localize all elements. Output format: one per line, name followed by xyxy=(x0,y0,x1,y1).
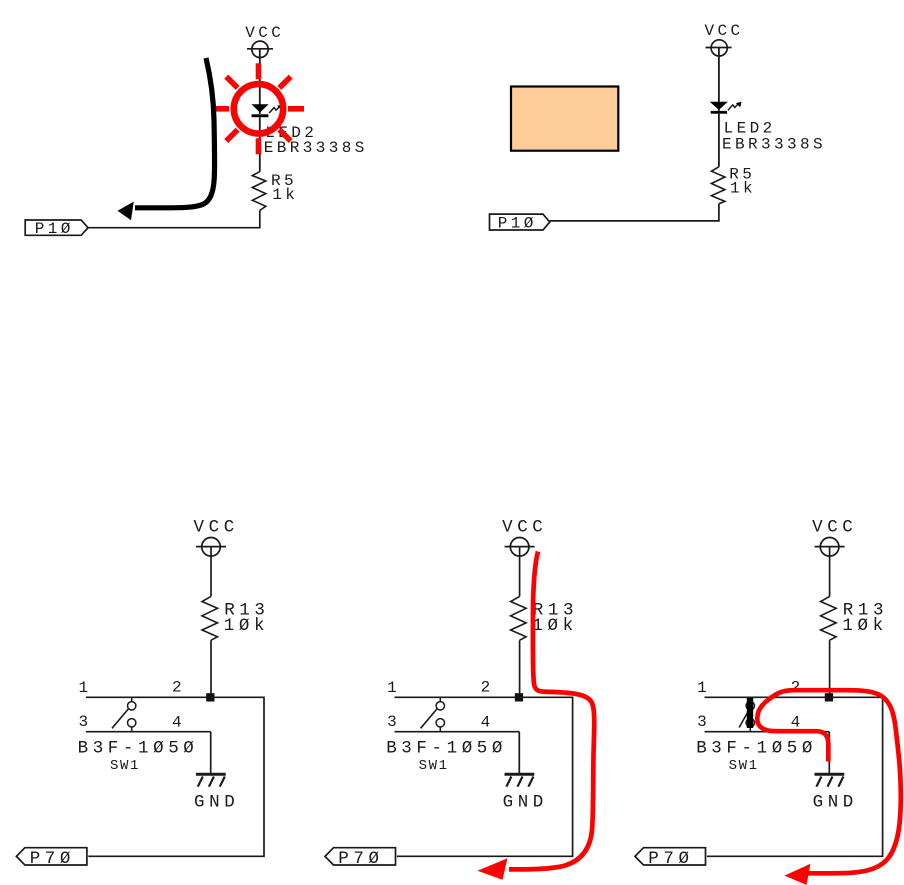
svg-text:P7Ø: P7Ø xyxy=(30,849,75,869)
svg-text:2: 2 xyxy=(172,679,184,697)
switch SW1 top contact circle xyxy=(128,702,136,710)
wire pin 4 down to ground xyxy=(828,732,830,774)
wire LED cathode to resistor R5 (top right) xyxy=(718,114,720,167)
wire switch bottom line pin 3 to pin 4 xyxy=(705,731,830,733)
LED light emission squiggle arrow (top right) xyxy=(728,103,739,110)
svg-text:1Øk: 1Øk xyxy=(224,616,269,636)
svg-text:1: 1 xyxy=(79,679,91,697)
wire resistor R5 to P10 (top left) xyxy=(88,210,260,227)
wire VCC to LED anode (top right) xyxy=(718,48,720,111)
svg-text:1Øk: 1Øk xyxy=(842,616,887,636)
junction node at pin 2 xyxy=(825,693,833,701)
annotation arrow (red, through switch to P70, right circuit) xyxy=(757,690,901,873)
switch SW1 actuator lever (open) xyxy=(421,709,438,729)
wire resistor R5 to P10 (top right) xyxy=(550,204,719,221)
switch SW1 top contact stub xyxy=(131,697,133,701)
switch SW1 bottom contact circle xyxy=(746,719,754,727)
switch SW1 top contact stub xyxy=(749,697,751,701)
wire resistor R13 to switch node xyxy=(829,640,831,697)
ground symbol xyxy=(815,774,845,787)
svg-text:4: 4 xyxy=(481,714,493,732)
LED light emission squiggle arrow (top left) xyxy=(269,106,280,113)
LED glow ring (red) xyxy=(234,84,283,133)
svg-text:P7Ø: P7Ø xyxy=(338,849,383,869)
switch SW1 top contact stub xyxy=(439,697,441,701)
svg-text:B3F-1Ø5Ø: B3F-1Ø5Ø xyxy=(696,738,817,758)
connector tag P10 outline (top right) xyxy=(490,214,550,230)
svg-text:2: 2 xyxy=(481,679,493,697)
wire junction right and down to P70 xyxy=(707,697,883,856)
switch SW1 top contact circle xyxy=(436,702,444,710)
switch SW1 bottom contact stub xyxy=(439,727,441,732)
svg-text:1Øk: 1Øk xyxy=(532,616,577,636)
wire resistor R13 to switch node xyxy=(210,640,212,697)
svg-text:EBR3338S: EBR3338S xyxy=(264,139,368,157)
switch SW1 bottom contact circle xyxy=(128,719,136,727)
svg-text:1: 1 xyxy=(387,679,399,697)
svg-text:SW1: SW1 xyxy=(110,758,140,774)
svg-text:GND: GND xyxy=(194,792,239,812)
svg-text:P1Ø: P1Ø xyxy=(35,220,74,238)
wire VCC to resistor R13 xyxy=(829,547,831,597)
power symbol VCC (circle with bar) xyxy=(196,538,226,557)
wire switch bottom line pin 3 to pin 4 xyxy=(86,731,211,733)
svg-text:3: 3 xyxy=(387,713,399,731)
annotation arrow (black curved, to P10) xyxy=(135,58,215,208)
svg-text:1k: 1k xyxy=(730,180,756,198)
ground symbol xyxy=(505,774,535,787)
resistor R5 zigzag (top left) xyxy=(252,172,265,211)
svg-text:VCC: VCC xyxy=(705,22,744,40)
svg-text:EBR3338S: EBR3338S xyxy=(722,136,826,154)
power symbol VCC circle (top right) xyxy=(706,40,732,56)
svg-text:3: 3 xyxy=(697,713,709,731)
wire resistor R13 to switch node xyxy=(519,640,521,697)
LED LED2 triangle (top right) xyxy=(710,102,728,110)
connector tag P70 outline xyxy=(325,848,396,865)
wire junction right and down to P70 xyxy=(397,697,573,856)
svg-text:GND: GND xyxy=(503,792,548,812)
wire pin 4 down to ground xyxy=(210,732,212,774)
junction node at pin 2 xyxy=(515,693,523,701)
LED LED2 cathode bar (top right) xyxy=(711,111,727,114)
connector tag P70 outline xyxy=(635,848,706,865)
svg-text:P1Ø: P1Ø xyxy=(498,215,537,233)
svg-text:VCC: VCC xyxy=(245,24,284,42)
connector tag P70 outline xyxy=(16,848,87,865)
resistor R13 zigzag xyxy=(821,596,837,640)
switch SW1 bottom contact circle xyxy=(436,719,444,727)
svg-text:4: 4 xyxy=(172,714,184,732)
svg-text:B3F-1Ø5Ø: B3F-1Ø5Ø xyxy=(78,738,199,758)
svg-text:1: 1 xyxy=(697,679,709,697)
switch SW1 bottom contact stub xyxy=(131,727,133,732)
svg-text:SW1: SW1 xyxy=(419,758,449,774)
junction node at pin 2 xyxy=(206,693,214,701)
LED glow rays (red) xyxy=(213,63,304,154)
LED LED2 cathode bar (top left) xyxy=(252,114,269,117)
power symbol VCC (circle with bar) xyxy=(815,538,845,557)
svg-text:VCC: VCC xyxy=(194,517,239,537)
svg-text:SW1: SW1 xyxy=(729,758,759,774)
wire VCC to LED anode (top left) xyxy=(259,49,261,114)
resistor R13 zigzag xyxy=(511,596,526,640)
svg-text:VCC: VCC xyxy=(812,517,857,537)
wire switch top line pin 1 to pin 2 xyxy=(86,696,211,698)
wire pin 4 down to ground xyxy=(518,732,520,774)
wire switch top line pin 1 to pin 2 xyxy=(395,696,520,698)
switch SW1 closed contact bar xyxy=(747,698,753,728)
ground symbol xyxy=(196,774,226,787)
switch SW1 top contact circle xyxy=(746,702,754,710)
resistor R5 zigzag (top right) xyxy=(711,167,725,204)
svg-text:GND: GND xyxy=(813,792,858,812)
highlight rectangle (orange) xyxy=(511,87,618,151)
svg-text:B3F-1Ø5Ø: B3F-1Ø5Ø xyxy=(386,738,507,758)
switch SW1 actuator lever (open) xyxy=(112,709,129,729)
wire VCC to resistor R13 xyxy=(210,547,212,597)
svg-text:VCC: VCC xyxy=(502,517,547,537)
wire VCC to resistor R13 xyxy=(519,547,521,597)
wire switch bottom line pin 3 to pin 4 xyxy=(395,731,520,733)
svg-text:P7Ø: P7Ø xyxy=(648,849,693,869)
power symbol VCC (circle with bar) xyxy=(505,538,535,557)
resistor R13 zigzag xyxy=(202,596,218,640)
power symbol VCC circle (top left) xyxy=(247,41,273,57)
wire LED cathode to resistor R5 (top left) xyxy=(259,117,261,171)
svg-text:2: 2 xyxy=(791,679,803,697)
connector tag P10 outline (top left) xyxy=(25,220,88,235)
LED LED2 triangle (top left) xyxy=(251,104,268,112)
wire junction right and down to P70 xyxy=(88,697,264,856)
svg-text:3: 3 xyxy=(79,713,91,731)
wire switch top line pin 1 to pin 2 xyxy=(705,696,830,698)
annotation arrow (red, VCC to P70, middle circuit) xyxy=(509,552,594,870)
svg-text:1k: 1k xyxy=(272,186,298,204)
switch SW1 actuator lever (pressed) xyxy=(739,713,748,728)
switch SW1 bottom contact stub xyxy=(749,727,751,732)
